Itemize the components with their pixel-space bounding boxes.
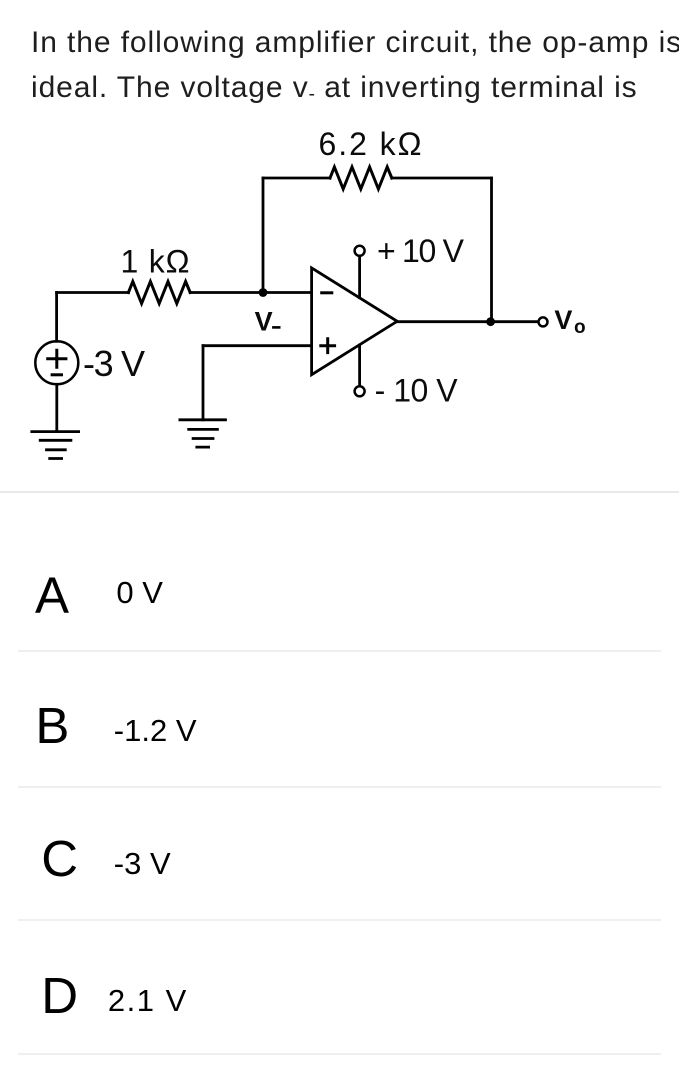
feedback wire right vertical segment down to output node — [490, 178, 493, 322]
left vertical wire from input wire down to source V1 — [55, 293, 58, 342]
separator B/C — [18, 786, 661, 788]
output wire from op-amp to Vo terminal — [397, 320, 538, 323]
option D letter — [41, 970, 78, 1021]
output node junction dot — [486, 317, 495, 326]
feedback wire top-left horizontal segment — [263, 177, 330, 180]
op-amp inverting input minus marker — [322, 291, 332, 294]
source V1 minus marker — [52, 373, 61, 376]
separator bottom — [18, 1053, 661, 1055]
option A value 0 V — [116, 577, 163, 608]
svg-text:-3 V: -3 V — [83, 343, 145, 384]
separator above options — [0, 491, 679, 493]
wire from source V1 bottom to ground — [55, 384, 58, 431]
middle vertical wire down to ground — [202, 346, 205, 420]
voltage source V1 circle — [35, 341, 78, 384]
separator A/B — [18, 650, 661, 652]
svg-text:+ 10 V: + 10 V — [377, 233, 465, 269]
option A letter — [35, 570, 69, 621]
op-amp non-inverting input plus marker — [321, 339, 335, 353]
feedback wire left vertical segment (node V- up to R2) — [262, 178, 265, 293]
feedback wire top-right horizontal segment — [392, 177, 492, 180]
source V1 plus marker — [48, 350, 66, 367]
resistor R1 1k zigzag — [128, 282, 190, 304]
svg-text:- 10 V: - 10 V — [375, 373, 459, 409]
ground symbol below source V1 — [32, 432, 79, 459]
svg-text:1 kΩ: 1 kΩ — [121, 244, 190, 280]
option C letter — [41, 833, 78, 884]
subscript minus of V- label — [273, 326, 279, 329]
option B letter — [35, 700, 69, 751]
positive supply open terminal circle — [355, 246, 365, 256]
svg-text:o: o — [574, 317, 586, 338]
wire from R1 to node V- and op-amp inverting input — [190, 291, 311, 294]
option D value 2.1 V — [108, 985, 188, 1016]
option B value -1.2 V — [114, 715, 197, 746]
svg-text:V: V — [255, 306, 273, 336]
resistor R2 6.2k zigzag — [330, 167, 392, 189]
wire from ground to op-amp non-inverting input — [203, 344, 312, 347]
svg-text:6.2 kΩ: 6.2 kΩ — [319, 126, 422, 162]
node V- junction dot — [259, 288, 268, 297]
output open terminal circle — [539, 317, 548, 326]
positive supply wire of op-amp — [358, 256, 361, 298]
svg-text:V: V — [554, 305, 572, 335]
wire from source V1 to R1 — [57, 291, 129, 294]
question title — [31, 20, 679, 114]
ground symbol at non-inverting input — [180, 420, 226, 447]
op-amp U1 triangle — [312, 268, 398, 375]
negative supply open terminal circle — [355, 386, 365, 396]
negative supply wire of op-amp — [358, 345, 361, 386]
separator C/D — [18, 919, 661, 921]
option C value -3 V — [114, 848, 171, 879]
